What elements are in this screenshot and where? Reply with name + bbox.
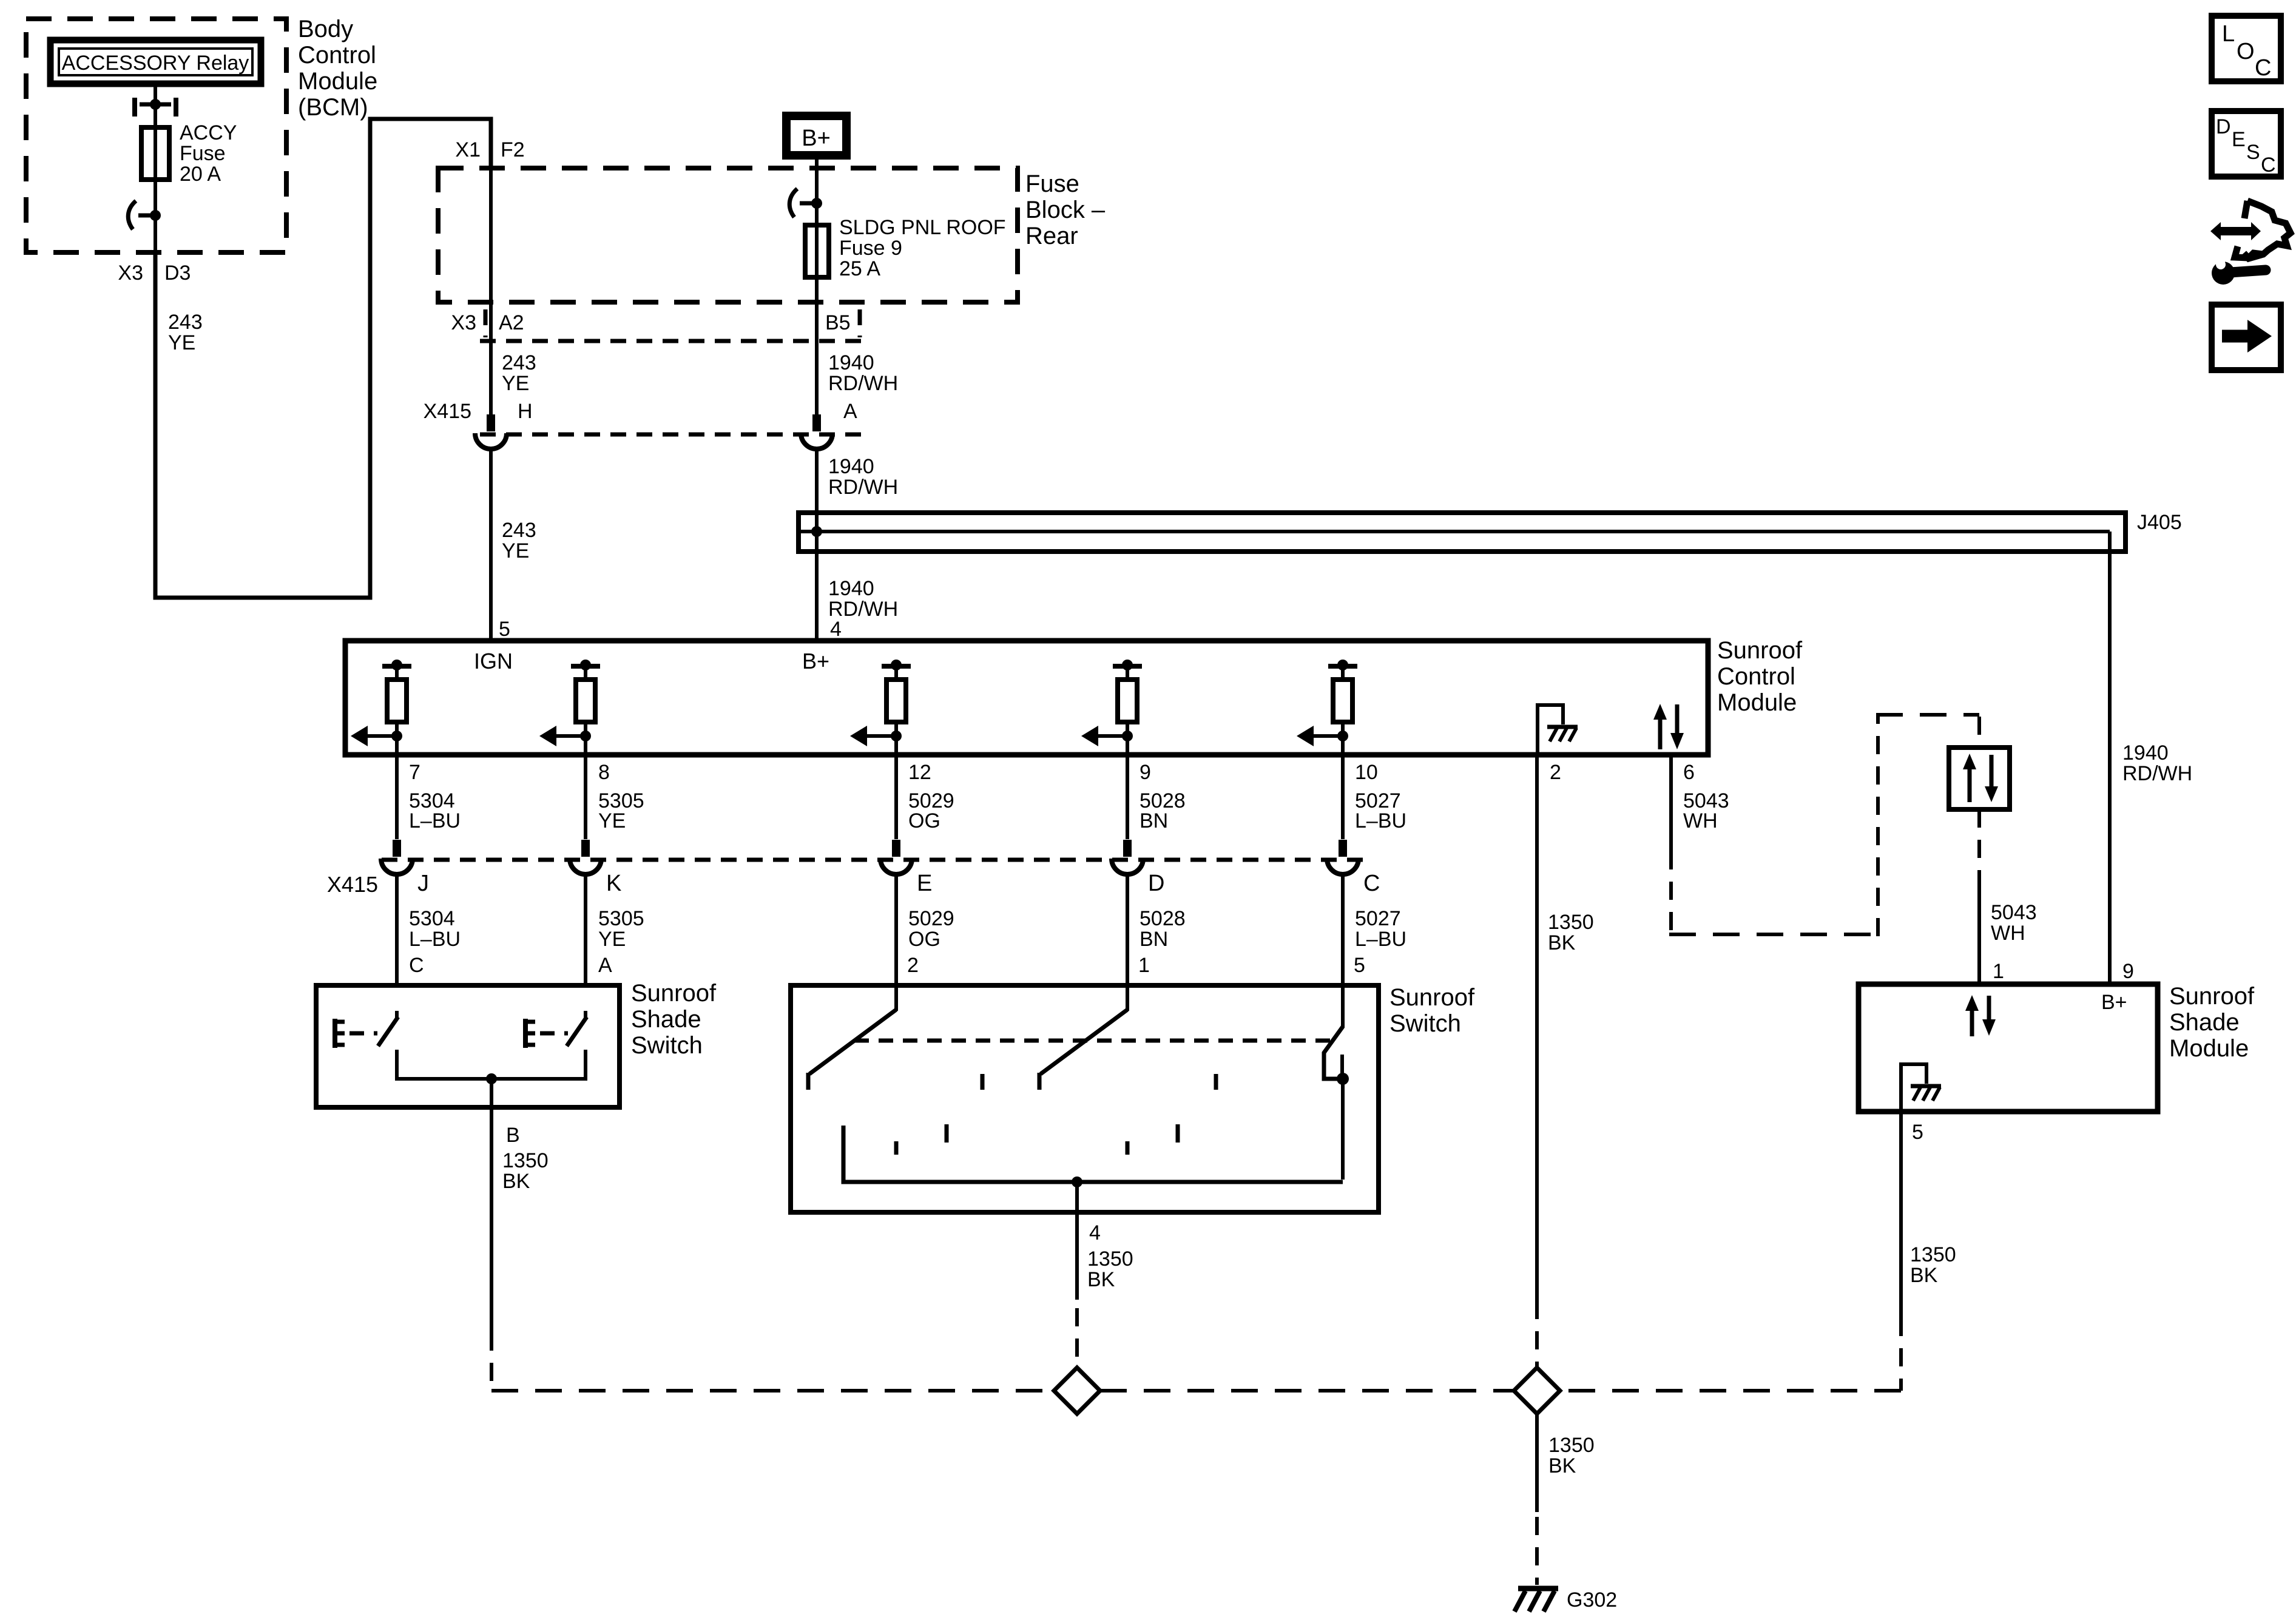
svg-text:BK: BK <box>1548 931 1576 954</box>
svg-text:YE: YE <box>502 372 529 395</box>
svg-text:Fuse: Fuse <box>1025 170 1079 197</box>
connector E <box>880 840 932 896</box>
fuse ACCY 20 A <box>141 127 169 180</box>
svg-text:1350: 1350 <box>1910 1243 1956 1266</box>
label 243 YE left <box>168 311 203 354</box>
svg-text:Body: Body <box>298 16 353 42</box>
svg-text:5029: 5029 <box>908 907 954 930</box>
svg-text:12: 12 <box>908 761 931 784</box>
svg-text:1940: 1940 <box>828 455 874 478</box>
sunroof switch blade pin 1 <box>1039 988 1127 1090</box>
bottom dashed bus between splices <box>1100 1389 1513 1393</box>
svg-text:B: B <box>506 1124 520 1147</box>
icon LOC box <box>2212 16 2281 81</box>
svg-text:BK: BK <box>1548 1454 1576 1477</box>
wire 1940 RD/WH right drop <box>2110 532 2192 984</box>
svg-text:B+: B+ <box>2101 991 2127 1014</box>
svg-text:F2: F2 <box>501 138 525 161</box>
svg-text:E: E <box>917 871 932 896</box>
driver output pin 7 <box>351 660 411 755</box>
svg-text:WH: WH <box>1683 809 1718 832</box>
svg-text:X3: X3 <box>118 262 143 285</box>
connector C <box>1327 840 1380 896</box>
relay contact symbol <box>135 98 176 116</box>
wire pin 6 5043 WH dashed path <box>1669 715 1979 936</box>
svg-text:Fuse: Fuse <box>180 142 226 165</box>
svg-text:Switch: Switch <box>1389 1010 1461 1037</box>
B+ power box <box>786 116 846 155</box>
svg-text:4: 4 <box>830 618 842 641</box>
svg-text:Switch: Switch <box>631 1032 703 1059</box>
svg-text:1350: 1350 <box>1548 911 1594 934</box>
svg-text:1350: 1350 <box>1087 1247 1133 1271</box>
wire 5043 WH to shade module pin 1 <box>1979 809 2037 984</box>
svg-text:A: A <box>598 954 612 977</box>
pin number labels under module <box>409 761 1695 784</box>
connector K <box>570 840 621 896</box>
contact ticks lower <box>896 1124 1178 1155</box>
svg-text:Fuse 9: Fuse 9 <box>839 237 902 260</box>
label Sunroof Shade Module <box>2169 983 2255 1062</box>
internal up/down arrows pin 6 <box>1653 704 1684 749</box>
svg-text:A: A <box>843 400 857 423</box>
svg-text:O: O <box>2237 39 2255 64</box>
connector H <box>475 414 507 449</box>
wires X415 to switches <box>397 874 1343 988</box>
svg-text:20 A: 20 A <box>180 163 221 186</box>
X415 lower connector row <box>327 860 1365 897</box>
svg-text:B+: B+ <box>802 649 829 673</box>
driver output pin 12 <box>850 660 911 755</box>
splice diamond right <box>1514 1368 1560 1414</box>
shade switch right blade A <box>567 1011 587 1046</box>
svg-text:9: 9 <box>1140 761 1151 784</box>
label Body Control Module (BCM) <box>298 16 377 121</box>
shade module up/down arrows <box>1965 995 1996 1036</box>
labels X3 D3 <box>118 262 191 285</box>
svg-text:BK: BK <box>1087 1268 1115 1291</box>
labels IGN and B+ pins <box>474 649 829 673</box>
svg-text:25 A: 25 A <box>839 257 880 280</box>
sunroof switch blade pin 2 <box>808 988 896 1090</box>
svg-text:RD/WH: RD/WH <box>828 372 898 395</box>
svg-text:1350: 1350 <box>1548 1434 1595 1457</box>
label Sunroof Switch <box>1389 984 1475 1037</box>
connector D <box>1112 840 1164 896</box>
svg-text:C: C <box>2261 154 2276 177</box>
fuse SLDG PNL ROOF Fuse 9 25 A <box>805 203 829 277</box>
svg-text:5043: 5043 <box>1991 901 2037 924</box>
wires down to X3 row <box>491 168 817 414</box>
label SLDG PNL ROOF Fuse 9 25 A <box>839 216 1006 280</box>
label Sunroof Shade Switch <box>631 980 717 1059</box>
wire 1350 BK to G302 <box>1537 1414 1595 1585</box>
shade switch left actuator E <box>333 1019 377 1048</box>
splice diamond left <box>1054 1368 1100 1414</box>
svg-text:Sunroof: Sunroof <box>2169 983 2255 1010</box>
svg-text:D: D <box>1148 871 1164 896</box>
svg-text:Sunroof: Sunroof <box>631 980 717 1007</box>
svg-text:RD/WH: RD/WH <box>2122 762 2192 785</box>
svg-text:Shade: Shade <box>631 1006 701 1033</box>
labels 243 YE and 1940 RD/WH above X415 <box>502 351 898 395</box>
svg-text:C: C <box>2255 55 2271 81</box>
switch contact in fuse block <box>789 189 822 217</box>
svg-text:Rear: Rear <box>1025 223 1078 249</box>
svg-text:6: 6 <box>1683 761 1695 784</box>
svg-text:1350: 1350 <box>502 1149 549 1172</box>
svg-text:1940: 1940 <box>2122 741 2169 765</box>
driver output pin 10 <box>1297 660 1357 755</box>
label Sunroof Control Module <box>1717 637 1803 716</box>
svg-text:J: J <box>417 871 429 896</box>
switch contact in BCM <box>128 201 161 229</box>
svg-text:D3: D3 <box>164 262 191 285</box>
icon vehicle section with arrows and wrench <box>2210 201 2291 285</box>
wire labels row 1 <box>409 789 1729 832</box>
shade switch common contacts <box>397 1050 586 1110</box>
svg-text:J405: J405 <box>2137 511 2182 534</box>
driver output pin 9 <box>1081 660 1142 755</box>
dashed wire pin 5 to splice <box>1559 1318 1901 1391</box>
ground G302 <box>1514 1588 1617 1612</box>
svg-text:5: 5 <box>1354 954 1365 977</box>
svg-text:L–BU: L–BU <box>1355 809 1406 832</box>
wire 243 YE to module pin 5 <box>491 449 536 641</box>
svg-text:Sunroof: Sunroof <box>1389 984 1475 1011</box>
Sunroof Control Module box <box>345 641 1708 755</box>
svg-text:X3: X3 <box>451 311 476 334</box>
svg-text:C: C <box>1363 871 1380 896</box>
svg-text:YE: YE <box>502 539 529 562</box>
svg-text:1940: 1940 <box>828 577 874 600</box>
label B+ pin 9 inside <box>2101 991 2127 1014</box>
svg-text:ACCESSORY Relay: ACCESSORY Relay <box>62 52 249 75</box>
svg-text:OG: OG <box>908 928 940 951</box>
svg-text:5: 5 <box>1912 1121 1923 1144</box>
svg-text:(BCM): (BCM) <box>298 94 368 121</box>
shade module internal ground <box>1901 1064 1941 1112</box>
ACCESSORY Relay box <box>50 40 261 84</box>
svg-text:5027: 5027 <box>1355 907 1401 930</box>
svg-text:S: S <box>2246 141 2260 164</box>
labels X3 A2 B5 <box>451 311 850 334</box>
svg-text:ACCY: ACCY <box>180 121 237 144</box>
svg-text:2: 2 <box>1550 761 1561 784</box>
svg-text:BK: BK <box>502 1170 530 1193</box>
wire fuse to switch <box>154 180 157 252</box>
connector A <box>801 414 832 449</box>
wire 243 YE loop to fuse block <box>155 119 491 598</box>
X415 upper connector row <box>424 400 863 434</box>
svg-text:X415: X415 <box>327 872 378 897</box>
svg-text:9: 9 <box>2122 960 2134 983</box>
svg-text:RD/WH: RD/WH <box>828 476 898 499</box>
wire 4 1350 BK <box>1077 1212 1133 1368</box>
wire pin 5 1350 BK <box>1901 1112 1956 1318</box>
Sunroof Shade Switch box <box>316 985 620 1107</box>
Fuse Block Rear dashed box <box>438 168 1018 302</box>
svg-text:L–BU: L–BU <box>409 928 461 951</box>
sunshade motor symbol <box>1949 748 2010 809</box>
svg-text:5304: 5304 <box>409 907 455 930</box>
common bus inside sunroof switch <box>843 1126 1343 1212</box>
svg-text:SLDG PNL ROOF: SLDG PNL ROOF <box>839 216 1006 239</box>
wire labels row 2 <box>409 907 1406 951</box>
X3 connector row of fuse block <box>480 309 863 341</box>
svg-text:IGN: IGN <box>474 649 513 673</box>
svg-text:1940: 1940 <box>828 351 874 374</box>
wire 1940 RD/WH to module pin 4 <box>817 449 898 641</box>
svg-text:Module: Module <box>2169 1035 2249 1062</box>
svg-text:BN: BN <box>1140 809 1168 832</box>
svg-text:BK: BK <box>1910 1264 1938 1287</box>
svg-text:BN: BN <box>1140 928 1168 951</box>
svg-text:5305: 5305 <box>598 907 644 930</box>
svg-text:243: 243 <box>502 351 536 374</box>
labels X1 F2 <box>455 138 524 161</box>
svg-text:L–BU: L–BU <box>409 809 461 832</box>
svg-text:5: 5 <box>499 618 510 641</box>
svg-text:WH: WH <box>1991 922 2025 945</box>
wire relay to fuse <box>154 84 157 127</box>
svg-text:YE: YE <box>598 928 626 951</box>
svg-text:10: 10 <box>1355 761 1378 784</box>
svg-text:Block –: Block – <box>1025 197 1106 223</box>
svg-text:Module: Module <box>1717 689 1797 716</box>
svg-text:7: 7 <box>409 761 420 784</box>
svg-text:Sunroof: Sunroof <box>1717 637 1803 664</box>
svg-text:L–BU: L–BU <box>1355 928 1406 951</box>
switch pin letter labels <box>409 954 1365 977</box>
Body Control Module (BCM) dashed box <box>26 19 286 252</box>
svg-text:1: 1 <box>1993 960 2004 983</box>
wire pin 2 1350 BK down <box>1537 755 1594 1368</box>
contact ticks upper <box>982 1074 1216 1090</box>
sunroof switch blade pin 5 <box>1324 988 1349 1180</box>
Sunroof Switch box <box>791 985 1379 1212</box>
svg-text:Control: Control <box>298 42 376 69</box>
svg-text:A2: A2 <box>499 311 524 334</box>
mechanical link dashed <box>854 1039 1339 1043</box>
driver output pin 8 <box>539 660 600 755</box>
svg-text:243: 243 <box>502 519 536 542</box>
label Fuse Block - Rear <box>1025 170 1106 249</box>
svg-text:Control: Control <box>1717 663 1795 690</box>
svg-text:2: 2 <box>907 954 919 977</box>
connector J <box>381 840 429 896</box>
svg-text:H: H <box>518 400 533 423</box>
svg-text:YE: YE <box>168 331 195 354</box>
wire B+ into fuse block <box>815 160 819 203</box>
svg-text:C: C <box>409 954 424 977</box>
Sunroof Shade Module box <box>1859 984 2158 1112</box>
svg-text:B5: B5 <box>825 311 851 334</box>
shade switch left blade C <box>378 1011 398 1046</box>
icon forward arrow box <box>2212 305 2281 370</box>
shade switch right actuator E <box>523 1019 568 1048</box>
svg-text:E: E <box>2232 128 2246 151</box>
svg-text:OG: OG <box>908 809 940 832</box>
svg-text:4: 4 <box>1089 1221 1101 1244</box>
svg-text:YE: YE <box>598 809 626 832</box>
svg-text:D: D <box>2216 115 2231 138</box>
svg-text:8: 8 <box>598 761 610 784</box>
svg-text:L: L <box>2222 21 2235 47</box>
splice pack J405 bus <box>799 511 2182 552</box>
svg-text:G302: G302 <box>1567 1588 1617 1612</box>
svg-text:Module: Module <box>298 68 377 95</box>
svg-text:243: 243 <box>168 311 203 334</box>
svg-text:Shade: Shade <box>2169 1009 2240 1036</box>
svg-text:K: K <box>606 871 621 896</box>
icon DESC box <box>2212 111 2281 177</box>
svg-text:5028: 5028 <box>1140 907 1186 930</box>
svg-text:X1: X1 <box>455 138 481 161</box>
wires module pins down to X415 <box>397 755 1343 839</box>
label ACCY Fuse 20 A <box>180 121 237 186</box>
wire B 1350 BK <box>491 1110 549 1332</box>
dashed wire B to splice <box>491 1332 1054 1391</box>
svg-text:1: 1 <box>1138 954 1150 977</box>
internal ground pin 2 <box>1538 705 1578 755</box>
svg-text:B+: B+ <box>802 126 831 151</box>
svg-text:X415: X415 <box>424 400 471 423</box>
